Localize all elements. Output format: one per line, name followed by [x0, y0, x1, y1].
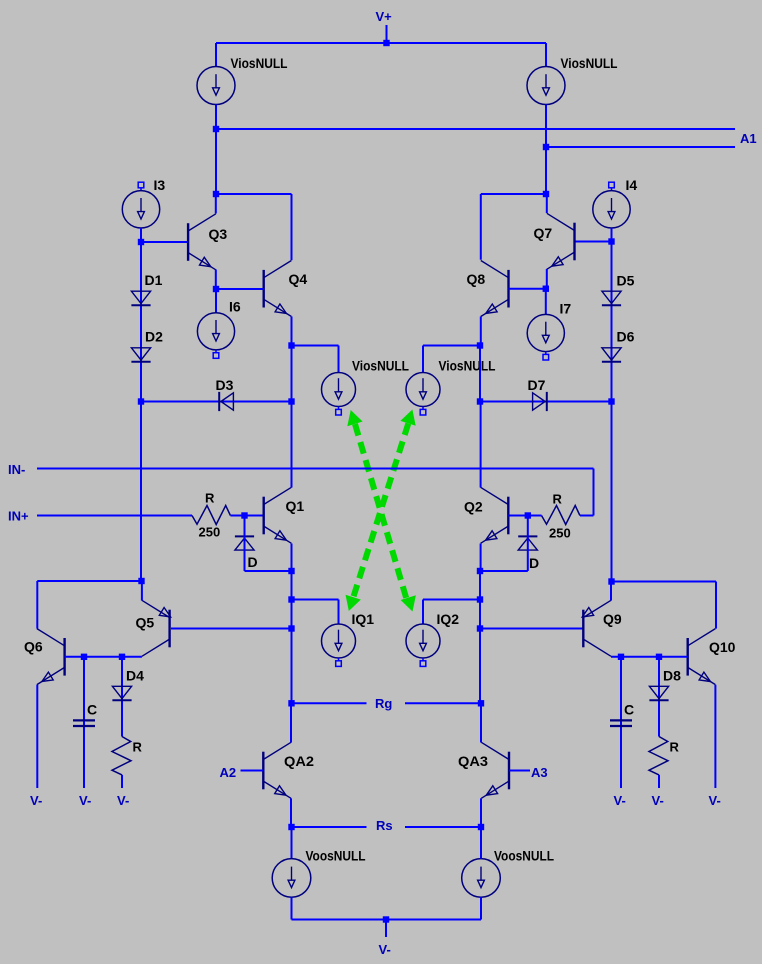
node junction Q5 base tap	[288, 625, 294, 631]
node A1 label	[740, 131, 757, 146]
wire D right anode	[527, 516, 529, 572]
transistor Q6	[37, 629, 65, 685]
wire Q7 base	[575, 241, 612, 243]
svg-text:VoosNULL: VoosNULL	[306, 848, 366, 864]
node V- bottom label	[379, 942, 391, 957]
transistor Q8	[481, 261, 509, 317]
svg-text:ViosNULL: ViosNULL	[352, 358, 409, 374]
wire QA3 base to A3	[509, 770, 530, 772]
svg-text:V-: V-	[30, 793, 42, 808]
wire I7 top	[545, 289, 547, 315]
wire Q7 collector	[546, 194, 548, 213]
current source I7	[527, 314, 564, 351]
wire QA2 emitter	[290, 798, 292, 827]
node junction C right tap	[618, 654, 624, 660]
node junction D6/D7	[608, 398, 614, 404]
wire top to Q8 collector	[481, 194, 546, 260]
wire to IQ2	[423, 600, 480, 625]
svg-text:D3: D3	[216, 377, 234, 393]
svg-text:ViosNULL: ViosNULL	[561, 55, 618, 71]
svg-text:D5: D5	[617, 273, 635, 289]
node V+ junction	[383, 40, 389, 46]
svg-text:I4: I4	[626, 177, 638, 193]
node R left-bottom label	[133, 740, 143, 755]
wire C right bottom	[0, 0, 1, 1]
node I6 label	[229, 299, 241, 315]
svg-text:QA3: QA3	[458, 753, 488, 769]
svg-text:Q9: Q9	[603, 611, 622, 627]
wire Q1 emitter	[291, 544, 293, 572]
wire R to V- left	[121, 775, 123, 788]
wire Rs right	[405, 826, 481, 828]
current source I3 terminal	[138, 182, 144, 191]
wire top to Q4 collector	[216, 194, 292, 260]
node VoosNULL left label	[306, 848, 366, 864]
transistor Q9 (pnp)	[582, 600, 611, 656]
node junction Q7e/I7/Q8b	[543, 286, 549, 292]
node junction x141-581	[138, 578, 144, 584]
node junction IQ2 tap	[477, 596, 483, 602]
node Rs label	[376, 818, 393, 833]
current source VoosNULL (left)	[272, 859, 311, 898]
node Q7 label	[534, 225, 553, 241]
node junction Rs left	[288, 824, 294, 830]
wire Rs left	[292, 826, 367, 828]
wire V- stub	[385, 920, 387, 938]
svg-text:R: R	[670, 740, 680, 755]
capacitor C (right)	[610, 720, 632, 726]
wire D1-D2 passthrough	[0, 0, 1, 1]
wire D left to Q1e	[245, 570, 292, 572]
wire IN+	[37, 515, 192, 517]
node I3 label	[154, 177, 166, 193]
transistor Q3	[188, 214, 216, 270]
wire D7 right	[480, 401, 612, 403]
node junction Rg left	[288, 700, 294, 706]
wire R to Q1 base	[230, 515, 263, 517]
current source I6 terminal	[213, 350, 219, 358]
wire Q3 base	[141, 241, 187, 243]
wire Q4 emitter	[291, 317, 293, 346]
node junction D4 tap	[119, 654, 125, 660]
svg-text:D: D	[529, 555, 539, 571]
node Q3 label	[209, 226, 228, 242]
node V+ label	[376, 9, 393, 24]
node IN- label	[8, 462, 25, 477]
transistor Q4	[264, 261, 292, 317]
svg-text:C: C	[624, 702, 634, 718]
node Q1 label	[286, 498, 305, 514]
wire V+ rail	[216, 42, 546, 44]
wire IN-	[37, 469, 594, 516]
node Q9 label	[603, 611, 622, 627]
diode D4	[112, 686, 131, 700]
wire Q10 emitter	[714, 685, 716, 788]
wire right ViosNULL bottom	[545, 105, 547, 195]
diode D7	[533, 392, 547, 411]
wire D2 to D3 node	[0, 0, 1, 1]
svg-text:Rg: Rg	[375, 696, 392, 711]
wire D8 to R	[0, 0, 1, 1]
svg-text:Q7: Q7	[534, 225, 553, 241]
svg-text:C: C	[87, 702, 97, 718]
svg-text:D4: D4	[126, 668, 144, 684]
node R left label	[205, 491, 215, 506]
wire I6 top	[215, 289, 217, 313]
wire VoosNULL right bottom	[480, 897, 482, 919]
wire left ViosNULL top	[215, 43, 217, 67]
svg-text:R: R	[205, 491, 215, 506]
wire D right to Q2e	[480, 570, 528, 572]
resistor R (left bottom)	[112, 737, 131, 775]
diode D left	[235, 536, 254, 550]
node junction D8 tap	[656, 654, 662, 660]
transistor QA3	[481, 742, 509, 798]
svg-text:I3: I3	[154, 177, 166, 193]
wire D3 right	[0, 0, 1, 1]
wire Q3 collector	[215, 194, 217, 214]
wire Q2 collector	[480, 402, 482, 488]
node junction 216-129	[213, 126, 219, 132]
svg-text:R: R	[553, 492, 563, 507]
diode D right	[518, 536, 537, 550]
node QA3 label	[458, 753, 488, 769]
svg-text:D2: D2	[145, 329, 163, 345]
node junction D7/Q2 collector	[477, 398, 483, 404]
svg-text:IN-: IN-	[8, 462, 25, 477]
green swap arrow ViosNULL-left to IQ2	[347, 410, 416, 612]
svg-text:Q6: Q6	[24, 639, 43, 655]
svg-text:QA2: QA2	[284, 753, 314, 769]
node Q8 label	[467, 271, 486, 287]
node D left label	[248, 554, 258, 570]
wire I4 to node	[611, 228, 613, 242]
node junction 546-147	[543, 144, 549, 150]
current source I6	[197, 313, 234, 350]
node IQ2 label	[437, 611, 460, 627]
svg-text:V-: V-	[117, 793, 129, 808]
node R right-bottom label	[670, 740, 680, 755]
current source ViosNULL (left top)	[197, 67, 235, 105]
node junction IQ1 tap	[288, 596, 294, 602]
diode D5	[602, 291, 621, 305]
node junction D2/D3	[138, 398, 144, 404]
svg-text:V+: V+	[376, 9, 393, 24]
wire D1 anode	[140, 242, 142, 402]
svg-text:Q4: Q4	[289, 271, 308, 287]
wire bus A1 lower	[546, 146, 735, 148]
svg-text:V-: V-	[379, 942, 391, 957]
node V- label R left	[117, 793, 129, 808]
svg-text:ViosNULL: ViosNULL	[231, 55, 288, 71]
transistor Q1	[264, 487, 292, 543]
node junction I4/Q7/D5	[608, 238, 614, 244]
node A2 label	[220, 765, 237, 780]
svg-text:IN+: IN+	[8, 509, 29, 524]
resistor R (right bottom)	[649, 737, 668, 775]
wire to mid ViosNULL left	[292, 346, 339, 373]
svg-text:IQ1: IQ1	[352, 611, 375, 627]
node IQ1 label	[352, 611, 375, 627]
wire D7 left	[0, 0, 1, 1]
svg-text:V-: V-	[652, 793, 664, 808]
wire D6 to D7 node	[0, 0, 1, 1]
svg-text:A1: A1	[740, 131, 757, 146]
wire Q4e down	[291, 346, 293, 402]
node junction Rs right	[478, 824, 484, 830]
node V- label C left	[79, 793, 91, 808]
wire Q8e down	[479, 346, 481, 402]
current source I4	[593, 191, 630, 228]
node ViosNULL mid-right label	[439, 358, 496, 374]
node Q4 label	[289, 271, 308, 287]
node IN+ label	[8, 509, 29, 524]
wire C right top	[620, 657, 622, 788]
capacitor C (left)	[73, 720, 95, 726]
node junction Q3 collector	[213, 191, 219, 197]
node C right label	[624, 702, 634, 718]
wire Q2e down	[479, 571, 481, 703]
wire C left top	[83, 657, 85, 788]
wire I3 to node	[140, 228, 142, 242]
transistor Q10	[688, 629, 716, 685]
node junction R/D/Q1b	[241, 512, 247, 518]
node D5 label	[617, 273, 635, 289]
wire Q2 emitter	[480, 544, 482, 572]
node junction x611-581	[608, 578, 614, 584]
wire x141 column	[140, 402, 142, 582]
node ViosNULL mid-left label	[352, 358, 409, 374]
current source IQ2	[406, 624, 440, 658]
node D8 label	[663, 668, 681, 684]
svg-text:ViosNULL: ViosNULL	[439, 358, 496, 374]
node D3 label	[216, 377, 234, 393]
svg-text:Q10: Q10	[709, 639, 736, 655]
node V- label C right	[614, 793, 626, 808]
transistor QA2	[263, 742, 291, 798]
current source IQ2 terminal	[420, 658, 426, 666]
node junction R/D/Q2b	[525, 512, 531, 518]
green swap arrow ViosNULL-right to IQ1	[346, 410, 416, 612]
node junction I3/Q3/D1	[138, 239, 144, 245]
transistor Q7	[547, 213, 575, 269]
svg-text:Q5: Q5	[136, 615, 155, 631]
wire QA2 collector	[290, 703, 292, 742]
node 250 right label	[549, 526, 571, 541]
wire Q10 base / Q9 collector link	[611, 656, 688, 658]
node V- label R right	[652, 793, 664, 808]
node junction Q9 base tap	[477, 625, 483, 631]
wire Q10 collector	[715, 582, 717, 629]
node VoosNULL right label	[494, 848, 554, 864]
node V- junction	[383, 916, 389, 922]
wire V+ stub	[386, 25, 388, 43]
wire Q1e down	[291, 571, 293, 703]
node Q10 label	[709, 639, 736, 655]
node I4 label	[626, 177, 638, 193]
wire Q7 emitter	[546, 269, 548, 289]
current source VoosNULL (right)	[462, 859, 501, 898]
wire Rg left	[292, 702, 367, 704]
wire D4 anode	[121, 657, 123, 737]
resistor R (left 250)	[192, 506, 230, 525]
wire Q9 base	[480, 628, 583, 630]
node D1 label	[145, 272, 163, 288]
node junction Q3e/I6/Q4b	[213, 286, 219, 292]
current source I7 terminal	[543, 352, 549, 360]
node junction Q4e	[288, 342, 294, 348]
node V- label Q6	[30, 793, 42, 808]
current source ViosNULL mid-right terminal	[420, 407, 426, 416]
wire Q8 emitter	[480, 317, 482, 346]
svg-text:D6: D6	[617, 329, 635, 345]
wire D8 anode	[658, 657, 660, 737]
current source IQ1 terminal	[336, 658, 342, 666]
wire Q2 base	[508, 515, 541, 517]
svg-text:V-: V-	[79, 793, 91, 808]
svg-text:VoosNULL: VoosNULL	[494, 848, 554, 864]
svg-text:D7: D7	[528, 377, 546, 393]
svg-text:Rs: Rs	[376, 818, 393, 833]
node V- label Q10	[709, 793, 721, 808]
wire left ViosNULL bottom	[215, 105, 217, 195]
current source ViosNULL (mid left)	[322, 373, 356, 407]
wire Q5 base	[171, 628, 292, 630]
wire VoosNULL right top	[480, 827, 482, 859]
wire D5 anode	[611, 242, 613, 402]
svg-text:D: D	[248, 554, 258, 570]
svg-text:V-: V-	[614, 793, 626, 808]
svg-text:V-: V-	[709, 793, 721, 808]
svg-text:I7: I7	[560, 301, 572, 317]
svg-text:Q3: Q3	[209, 226, 228, 242]
transistor Q5 (pnp)	[142, 600, 171, 656]
node Q5 label	[136, 615, 155, 631]
wire Q9 emitter	[611, 582, 716, 601]
wire to mid ViosNULL right	[423, 346, 480, 373]
node junction D3/Q1 collector	[288, 398, 294, 404]
wire D4 to R	[0, 0, 1, 1]
resistor R (right 250)	[542, 506, 580, 525]
node Q2 label	[464, 499, 483, 515]
wire to IQ1	[292, 600, 339, 625]
node D4 label	[126, 668, 144, 684]
current source ViosNULL mid-left terminal	[336, 407, 342, 416]
svg-text:250: 250	[549, 526, 571, 541]
wire Q6 collector	[36, 581, 38, 629]
node junction C left tap	[81, 654, 87, 660]
svg-text:R: R	[133, 740, 143, 755]
wire A2 to QA2 base	[241, 770, 264, 772]
svg-text:A2: A2	[220, 765, 237, 780]
node D7 label	[528, 377, 546, 393]
wire Q6 emitter	[36, 685, 38, 788]
wire Q6 base / Q5 collector link	[65, 656, 142, 658]
node junction Q8e	[477, 342, 483, 348]
wire D3 left	[141, 401, 292, 403]
node junction Q2e/D	[477, 568, 483, 574]
node D2 label	[145, 329, 163, 345]
current source I3	[122, 191, 159, 228]
svg-text:Q8: Q8	[467, 271, 486, 287]
current source ViosNULL (right top)	[527, 67, 565, 105]
wire Q4 base	[216, 288, 264, 290]
node junction Rg right	[478, 700, 484, 706]
svg-text:250: 250	[199, 525, 221, 540]
svg-text:A3: A3	[531, 765, 548, 780]
wire Q3 emitter	[215, 270, 217, 290]
transistor Q2	[481, 487, 509, 543]
node ViosNULL right label	[561, 55, 618, 71]
wire QA3 collector	[480, 703, 482, 742]
wire VoosNULL left top	[291, 827, 293, 859]
node C left label	[87, 702, 97, 718]
node A3 label	[531, 765, 548, 780]
node junction Q1e/D	[288, 568, 294, 574]
diode D1	[131, 291, 150, 305]
svg-text:I6: I6	[229, 299, 241, 315]
wire Q1 collector	[291, 402, 293, 488]
node Q6 label	[24, 639, 43, 655]
diode D2	[131, 348, 150, 362]
wire Q8 base	[509, 288, 546, 290]
diode D6	[602, 348, 621, 362]
current source ViosNULL (mid right)	[406, 373, 440, 407]
node junction Q7 collector	[543, 191, 549, 197]
diode D8	[649, 686, 668, 700]
wire Rg right	[405, 702, 481, 704]
wire right ViosNULL top	[545, 43, 547, 67]
svg-text:Q2: Q2	[464, 499, 483, 515]
wire bus A1 upper	[216, 128, 735, 130]
svg-text:D8: D8	[663, 668, 681, 684]
wire D left anode	[244, 516, 246, 572]
wire V- rail	[292, 919, 482, 921]
svg-text:D1: D1	[145, 272, 163, 288]
node I7 label	[560, 301, 572, 317]
wire C left bottom	[0, 0, 1, 1]
wire x611 column	[611, 402, 613, 582]
node Rg label	[375, 696, 392, 711]
wire R to V- right	[658, 775, 660, 788]
wire D5-D6 passthrough	[0, 0, 1, 1]
node ViosNULL left label	[231, 55, 288, 71]
svg-text:Q1: Q1	[286, 498, 305, 514]
node D6 label	[617, 329, 635, 345]
node QA2 label	[284, 753, 314, 769]
svg-text:IQ2: IQ2	[437, 611, 460, 627]
wire Q5 emitter	[37, 581, 142, 601]
current source IQ1	[322, 624, 356, 658]
node 250 left label	[199, 525, 221, 540]
node R right label	[553, 492, 563, 507]
wire VoosNULL left bottom	[291, 897, 293, 919]
node D right label	[529, 555, 539, 571]
diode D3	[219, 392, 233, 411]
current source I4 terminal	[609, 182, 615, 191]
wire QA3 emitter	[480, 798, 482, 827]
